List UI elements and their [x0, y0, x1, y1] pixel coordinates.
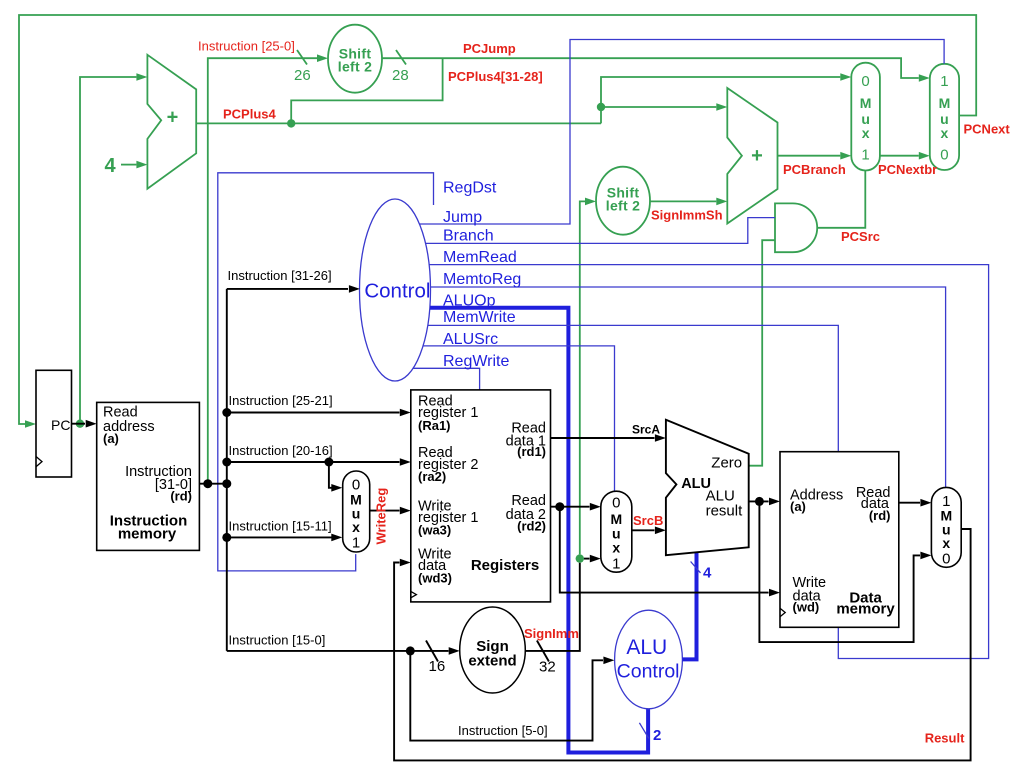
- wire read data 2 to data memory write data: [560, 507, 780, 597]
- svg-text:32: 32: [539, 659, 556, 676]
- wire read data 2 to mux M4 input 0: [551, 503, 601, 511]
- node SignImm junction: [576, 554, 584, 562]
- wire PCPlus4[31-28] branch up to jump address: [291, 58, 442, 123]
- wire MemWrite (control to data memory): [428, 325, 839, 451]
- svg-text:+: +: [751, 145, 763, 167]
- instruction memory: [97, 402, 200, 550]
- wire Zero (ALU zero flag to AND gate): [749, 240, 775, 466]
- svg-text:28: 28: [392, 67, 409, 84]
- svg-text:(Ra1): (Ra1): [418, 418, 451, 433]
- wire ALU control output (4 bits to ALU): [682, 553, 696, 660]
- svg-text:Instruction [25-21]: Instruction [25-21]: [229, 393, 333, 408]
- wire PC output up to PC+4 adder input: [80, 73, 147, 424]
- mux M5 (MemtoReg mux): [931, 487, 961, 567]
- svg-text:1: 1: [352, 535, 360, 552]
- svg-text:x: x: [612, 540, 620, 556]
- svg-text:left 2: left 2: [338, 58, 372, 74]
- node PC output junction: [76, 420, 84, 428]
- svg-text:ALUSrc: ALUSrc: [443, 331, 498, 348]
- svg-text:PCPlus4[31-28]: PCPlus4[31-28]: [448, 69, 543, 84]
- node PCPlus4 branch junction: [597, 103, 605, 111]
- adder A2 (branch target): [727, 88, 777, 224]
- svg-text:M: M: [860, 95, 872, 111]
- svg-text:(rd2): (rd2): [517, 519, 546, 534]
- svg-text:Instruction [25-0]: Instruction [25-0]: [198, 39, 295, 54]
- wire RegWrite (control to registers): [413, 368, 480, 390]
- wire Instruction [5-0] to ALU control: [410, 651, 614, 741]
- svg-text:MemWrite: MemWrite: [443, 309, 516, 326]
- data memory: [780, 452, 899, 628]
- svg-text:left 2: left 2: [606, 198, 640, 214]
- wire Branch (control to AND gate): [426, 218, 776, 244]
- svg-text:Instruction [15-11]: Instruction [15-11]: [229, 519, 332, 534]
- node read data 2 junction: [555, 502, 564, 511]
- wire PCPlus4 (adder A1 output): [196, 122, 601, 124]
- svg-text:4: 4: [105, 155, 117, 177]
- wire Instruction [31-26] to control: [227, 268, 360, 293]
- svg-text:RegWrite: RegWrite: [443, 353, 509, 370]
- svg-text:PCSrc: PCSrc: [841, 229, 880, 244]
- svg-text:Branch: Branch: [443, 227, 494, 244]
- svg-text:PCNext: PCNext: [964, 122, 1011, 137]
- svg-text:+: +: [167, 107, 179, 129]
- svg-text:Control: Control: [364, 279, 430, 302]
- svg-text:MemRead: MemRead: [443, 249, 517, 266]
- wire Instruction [15-0] to sign extend: [227, 633, 460, 655]
- ALU control unit U2: [615, 610, 683, 709]
- svg-text:0: 0: [942, 551, 950, 568]
- wire SrcB (mux M4 output to ALU): [632, 527, 666, 535]
- wire Instruction [15-11] to mux M3 input 1: [222, 519, 342, 542]
- bus width slash 28: [396, 50, 406, 65]
- node ALU result junction: [755, 497, 764, 506]
- wire SignImm (sign extend output): [525, 563, 580, 651]
- bus width slash 32: [537, 641, 549, 662]
- svg-text:Registers: Registers: [471, 557, 539, 574]
- svg-text:SrcA: SrcA: [632, 423, 660, 437]
- svg-text:Result: Result: [925, 731, 965, 746]
- svg-text:4: 4: [703, 565, 712, 582]
- node PCPlus4 junction: [287, 119, 295, 127]
- bus width slash 26: [297, 50, 307, 65]
- svg-text:1: 1: [861, 147, 869, 164]
- svg-text:Instruction [20-16]: Instruction [20-16]: [229, 443, 333, 458]
- svg-text:Instruction [5-0]: Instruction [5-0]: [458, 723, 548, 738]
- ALU: [666, 420, 749, 555]
- svg-text:SrcB: SrcB: [633, 513, 663, 528]
- svg-text:1: 1: [612, 556, 620, 573]
- register file (Registers): [411, 390, 551, 602]
- svg-text:0: 0: [612, 495, 620, 512]
- wire instruction bus vertical: [226, 289, 228, 651]
- svg-text:0: 0: [940, 147, 948, 164]
- adder A1 (PC+4): [147, 55, 196, 189]
- svg-text:Zero: Zero: [711, 455, 742, 472]
- svg-text:(rd1): (rd1): [517, 444, 546, 459]
- svg-text:PCJump: PCJump: [463, 41, 516, 56]
- wire PCNext feedback (mux M2 output to PC input): [19, 15, 976, 428]
- svg-text:(rd): (rd): [170, 488, 192, 503]
- wire MemtoReg (control to mux M5 select): [430, 287, 945, 487]
- svg-text:WriteReg: WriteReg: [374, 488, 389, 545]
- wire Instruction [25-0] up to shift left 2: [208, 54, 328, 483]
- wire ALU result to mux M5 input 0: [759, 501, 931, 642]
- wire Instruction [20-16] to read register 2: [222, 443, 410, 467]
- shift left 2 unit S1 (jump): [328, 25, 382, 93]
- wire WriteReg (mux M3 output to write register): [369, 507, 411, 515]
- svg-text:extend: extend: [468, 652, 516, 669]
- wire PCBranch (adder A2 output to mux M1 input 1): [778, 152, 852, 160]
- wire Instruction [25-21] to read register 1: [222, 393, 410, 417]
- sign extend unit: [460, 607, 526, 693]
- svg-text:(rd): (rd): [869, 508, 891, 523]
- svg-text:Jump: Jump: [443, 209, 482, 226]
- wire read data to mux M5 input 1: [899, 499, 932, 507]
- svg-text:(wd): (wd): [793, 599, 820, 614]
- register PC: [36, 370, 72, 477]
- mux M1 (branch mux): [851, 63, 880, 171]
- svg-text:M: M: [939, 95, 951, 111]
- svg-text:PCBranch: PCBranch: [783, 162, 846, 177]
- svg-text:x: x: [942, 535, 950, 551]
- wire SignImmSh (shift S2 output to adder A2): [650, 198, 727, 206]
- mux M2 (jump mux): [930, 64, 959, 170]
- wire RegDst (control to mux M3 select): [218, 173, 434, 571]
- svg-text:(a): (a): [790, 499, 806, 514]
- wire PCNextbr (mux M1 output to mux M2 input 0): [880, 152, 930, 160]
- svg-text:16: 16: [429, 658, 446, 675]
- svg-text:result: result: [706, 503, 744, 520]
- wire MemRead (control to data memory): [429, 265, 989, 659]
- svg-text:(a): (a): [103, 431, 119, 446]
- node instruction output junction (green tap): [203, 479, 212, 488]
- mux M3 (write register mux): [343, 471, 370, 552]
- svg-text:(wd3): (wd3): [418, 571, 452, 586]
- svg-text:PCNextbr: PCNextbr: [878, 162, 937, 177]
- control unit U1: [360, 199, 431, 381]
- svg-text:(ra2): (ra2): [418, 469, 446, 484]
- svg-text:memory: memory: [836, 601, 895, 618]
- wire PC to instruction memory: [72, 420, 97, 428]
- wire PCPlus4 to branch adder A2 top input: [601, 103, 727, 111]
- bus width slash 2: [639, 723, 648, 739]
- svg-text:memory: memory: [118, 526, 177, 543]
- wire SrcA (read data 1 to ALU): [551, 434, 666, 442]
- wire SignImm stub to mux M4 input 1: [584, 555, 601, 563]
- wire ALUSrc (control to mux M4 select): [423, 346, 615, 491]
- svg-text:SignImm: SignImm: [524, 626, 579, 641]
- svg-text:2: 2: [653, 727, 661, 744]
- svg-text:MemtoReg: MemtoReg: [443, 271, 521, 288]
- svg-text:Control: Control: [617, 661, 680, 683]
- svg-text:PC: PC: [51, 417, 70, 433]
- svg-text:x: x: [941, 125, 949, 141]
- svg-text:SignImmSh: SignImmSh: [651, 208, 723, 223]
- wire Jump (control to mux M2 select): [419, 40, 944, 225]
- svg-text:0: 0: [861, 73, 869, 90]
- wire Result (mux M5 output back to register write data): [394, 529, 971, 760]
- bus width slash 16: [426, 641, 438, 662]
- svg-text:x: x: [862, 125, 870, 141]
- node Instruction [15-0] junction: [406, 646, 415, 655]
- node instruction bus junction: [222, 479, 231, 488]
- svg-text:(wa3): (wa3): [418, 523, 451, 538]
- svg-text:Instruction [31-26]: Instruction [31-26]: [228, 268, 332, 283]
- wire SignImm up to shift left 2 S2: [580, 198, 596, 555]
- constant 4 input to adder A1: [105, 155, 148, 177]
- wire ALU result to data memory address: [749, 498, 780, 506]
- svg-text:x: x: [352, 519, 360, 535]
- wire instruction memory output: [199, 483, 226, 485]
- wire ALUOp (control to ALU control, 2 bits): [430, 308, 648, 753]
- svg-text:ALU: ALU: [626, 636, 667, 659]
- svg-text:26: 26: [294, 67, 311, 84]
- mux M4 (ALUSrc mux): [601, 491, 632, 572]
- shift left 2 unit S2 (branch): [596, 167, 650, 235]
- wire PCJump (shift S1 output to mux M2 input 1): [382, 58, 930, 82]
- svg-text:Instruction [15-0]: Instruction [15-0]: [229, 633, 326, 648]
- svg-text:ALUOp: ALUOp: [443, 292, 496, 309]
- AND gate (PCSrc): [775, 203, 817, 252]
- wire PCSrc (AND output to mux M1 select): [817, 171, 865, 228]
- svg-text:RegDst: RegDst: [443, 179, 497, 196]
- svg-text:PCPlus4: PCPlus4: [223, 107, 277, 122]
- svg-text:1: 1: [940, 73, 948, 90]
- wire Instruction [20-16] branch to mux M3 input 0: [324, 458, 342, 492]
- bus width slash 4: [691, 562, 701, 573]
- wire PCPlus4 to mux M1 input 0: [601, 73, 851, 123]
